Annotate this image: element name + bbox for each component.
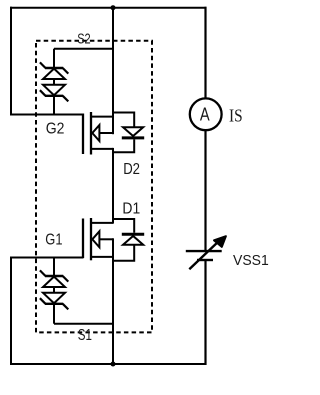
svg-text:A: A (200, 104, 210, 124)
wire G2 horizontal (11, 114, 84, 116)
svg-text:D2: D2 (123, 161, 140, 178)
svg-text:G2: G2 (46, 120, 65, 137)
transistor Q1 (lower MOSFET) (83, 218, 113, 260)
svg-text:S1: S1 (78, 327, 92, 344)
svg-text:S2: S2 (77, 31, 91, 48)
arrowhead of VSS1 (214, 236, 226, 247)
wire G1 horizontal (11, 257, 84, 259)
wire right vertical lower (VSS1 to S1) (204, 260, 206, 365)
wire top (S2 node, node S2) (10, 7, 207, 9)
dashed box (DUT boundary) (36, 41, 152, 333)
zener pair ZD1 (G1-S1 clamp) (40, 258, 68, 324)
main vertical segment 2 (Q2 drain to Q1 drain) (112, 148, 114, 224)
svg-text:IS: IS (229, 106, 243, 126)
zener pair ZD2 (G2-S2 clamp) (40, 49, 68, 115)
wire left-bottom vertical (10, 257, 12, 366)
junction dot bottom (111, 362, 116, 367)
wire S2 to main vertical (54, 48, 113, 50)
junction dot top (111, 5, 116, 10)
wire right vertical middle (ammeter to VSS1) (204, 130, 206, 251)
wire right vertical upper (S2 to ammeter) (204, 7, 206, 99)
transistor Q2 (upper MOSFET) (83, 112, 113, 155)
source VSS1 (variable source) (186, 240, 222, 269)
diode D2 (body diode of Q2) (113, 113, 144, 153)
main vertical segment 1 (S2 to Q2 body) (112, 8, 114, 135)
svg-text:VSS1: VSS1 (233, 252, 269, 269)
svg-text:G1: G1 (45, 231, 62, 248)
main vertical segment 3 (Q1 body to S1 node) (112, 238, 114, 365)
wire bottom (S1 node, node S1) (10, 363, 207, 365)
wire left-top vertical (10, 7, 12, 116)
svg-text:D1: D1 (122, 200, 140, 217)
diode D1 (body diode of Q1) (113, 219, 144, 261)
ammeter IS (meter U1) (190, 98, 222, 130)
wire S1 zener to main vertical (54, 323, 113, 325)
